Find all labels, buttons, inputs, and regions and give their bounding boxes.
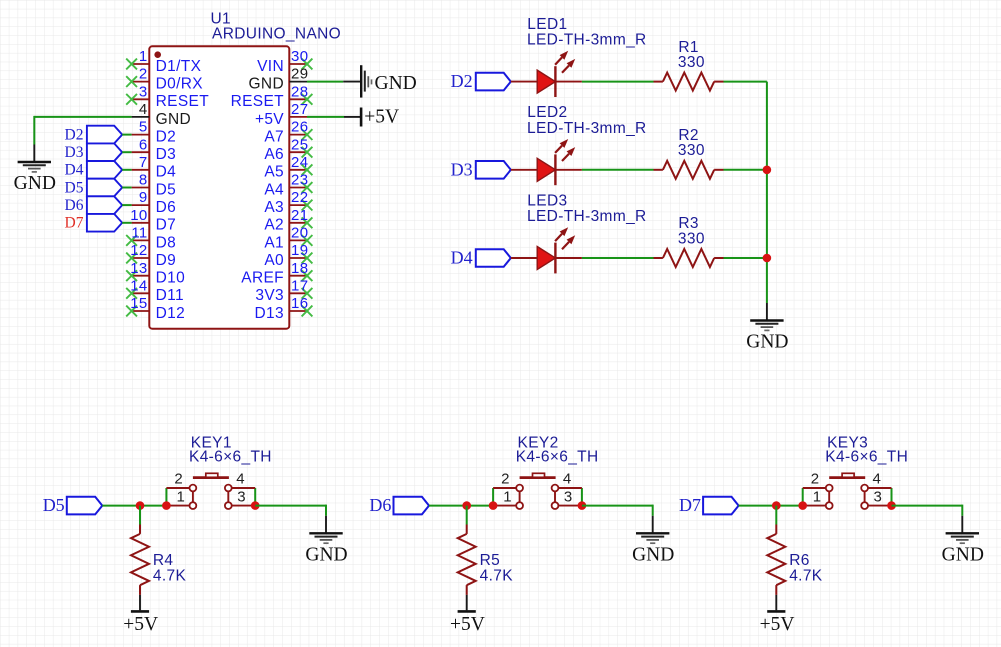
svg-text:6: 6 xyxy=(139,136,148,153)
power +5V (below R6) xyxy=(760,595,795,635)
node junction (flag/R) xyxy=(462,501,471,510)
svg-text:1: 1 xyxy=(503,489,512,506)
svg-text:11: 11 xyxy=(131,225,147,242)
svg-text:A3: A3 xyxy=(264,199,284,216)
U1 pin 13 (D10) xyxy=(126,260,185,287)
svg-text:D5: D5 xyxy=(65,179,84,196)
wire switch pin4 drop xyxy=(254,488,256,506)
svg-text:A6: A6 xyxy=(264,146,284,163)
ground (GND at KEY2) xyxy=(632,516,674,566)
svg-text:3: 3 xyxy=(874,489,883,506)
svg-text:+5V: +5V xyxy=(123,614,158,635)
svg-text:2: 2 xyxy=(811,470,820,487)
LED LED1 labels xyxy=(527,16,647,49)
net flag D2 (at U1) xyxy=(65,126,132,144)
wire D6 flag to switch xyxy=(429,505,493,507)
svg-text:D4: D4 xyxy=(451,248,473,268)
resistor R1 330 xyxy=(654,39,724,91)
resistor R3 330 xyxy=(654,215,724,267)
svg-text:4: 4 xyxy=(139,101,148,118)
svg-text:2: 2 xyxy=(174,470,183,487)
node junction (pin3) xyxy=(578,501,587,510)
node junction (pin1) xyxy=(162,501,171,510)
wire switch to GND corner xyxy=(892,505,963,516)
svg-text:30: 30 xyxy=(291,48,308,65)
svg-text:2: 2 xyxy=(139,66,148,83)
svg-text:GND: GND xyxy=(305,544,347,565)
svg-text:3: 3 xyxy=(564,489,573,506)
svg-text:23: 23 xyxy=(291,172,308,189)
svg-text:D7: D7 xyxy=(65,215,84,232)
svg-text:D6: D6 xyxy=(369,495,391,515)
U1 pin 10 (D7) xyxy=(130,207,176,234)
net flag D6 (key row) xyxy=(369,495,429,515)
svg-text:K4-6×6_TH: K4-6×6_TH xyxy=(189,449,272,466)
U1 pin 3 (RESET) xyxy=(126,83,209,110)
net flag D7 (at U1) xyxy=(65,214,132,232)
U1 pin 9 (D6) xyxy=(132,189,177,216)
svg-text:D7: D7 xyxy=(156,217,177,234)
net flag D5 (key row) xyxy=(43,495,103,515)
LED LED1 xyxy=(511,51,582,97)
U1 pin 16 (D13) xyxy=(255,295,313,322)
wire switch pin2 drop xyxy=(492,488,494,506)
svg-text:GND: GND xyxy=(746,332,788,353)
svg-text:1: 1 xyxy=(139,48,148,65)
svg-text:R5: R5 xyxy=(480,552,501,569)
resistor R2 330 xyxy=(654,127,724,179)
wire switch to GND corner xyxy=(255,505,326,516)
U1 pin 28 (RESET) xyxy=(231,83,313,110)
svg-text:AREF: AREF xyxy=(241,270,284,287)
svg-text:LED3: LED3 xyxy=(527,192,567,209)
svg-text:+5V: +5V xyxy=(364,107,399,128)
svg-text:4.7K: 4.7K xyxy=(789,568,823,585)
U1 pin 11 (D8) xyxy=(126,225,176,252)
svg-text:D1/TX: D1/TX xyxy=(156,58,202,75)
ground GND (right of pin29, sideways) xyxy=(343,65,417,97)
svg-text:+5V: +5V xyxy=(450,614,485,635)
svg-text:GND: GND xyxy=(942,544,984,565)
power +5V (below R4) xyxy=(123,595,158,635)
U1 pin 27 (+5V) xyxy=(255,101,308,128)
svg-text:1: 1 xyxy=(176,489,185,506)
svg-text:D4: D4 xyxy=(156,164,177,181)
U1 pin 25 (A6) xyxy=(264,136,312,163)
wire switch pin2 drop xyxy=(165,488,167,506)
wire resistor to bus xyxy=(724,169,767,171)
net flag D5 (at U1) xyxy=(65,179,132,197)
U1 pin 2 (D0/RX) xyxy=(126,66,203,93)
svg-text:RESET: RESET xyxy=(156,93,210,110)
svg-text:D4: D4 xyxy=(65,162,84,179)
svg-text:VIN: VIN xyxy=(257,58,284,75)
wire switch pin2 drop xyxy=(802,488,804,506)
svg-text:10: 10 xyxy=(130,207,147,224)
svg-text:A5: A5 xyxy=(264,164,284,181)
svg-text:GND: GND xyxy=(632,544,674,565)
U1 pin 1 (D1/TX) xyxy=(126,48,201,75)
svg-text:D2: D2 xyxy=(65,127,84,144)
svg-text:D2: D2 xyxy=(156,129,177,146)
svg-text:1: 1 xyxy=(813,489,822,506)
wire pin4 to ground xyxy=(34,116,131,145)
svg-text:D13: D13 xyxy=(255,305,284,322)
svg-text:D12: D12 xyxy=(156,305,185,322)
svg-text:GND: GND xyxy=(249,76,285,93)
svg-text:28: 28 xyxy=(291,83,308,100)
svg-text:7: 7 xyxy=(139,154,148,171)
svg-text:3: 3 xyxy=(237,489,246,506)
svg-text:ARDUINO_NANO: ARDUINO_NANO xyxy=(212,25,341,42)
node junction (pin3) xyxy=(251,501,260,510)
wire pin27 to +5V power port xyxy=(307,116,344,118)
resistor R5 4.7K xyxy=(458,525,513,595)
LED LED2 xyxy=(511,139,582,185)
svg-text:A4: A4 xyxy=(264,181,284,198)
U1 designator and part name labels xyxy=(211,11,342,43)
ground (top left GND) xyxy=(14,145,56,195)
svg-text:20: 20 xyxy=(291,225,308,242)
U1 pin 5 (D2) xyxy=(132,119,177,146)
svg-text:2: 2 xyxy=(501,470,510,487)
svg-text:D2: D2 xyxy=(451,71,473,91)
transistor-like switch KEY1 K4-6x6_TH xyxy=(166,434,271,509)
U1 pin 20 (A1) xyxy=(264,225,312,252)
svg-text:LED-TH-3mm_R: LED-TH-3mm_R xyxy=(527,120,647,137)
svg-text:+5V: +5V xyxy=(255,111,284,128)
U1 pin 22 (A3) xyxy=(264,189,312,216)
svg-text:18: 18 xyxy=(291,260,308,277)
svg-text:A7: A7 xyxy=(264,129,284,146)
LED LED3 labels xyxy=(527,192,647,225)
U1 pin 18 (AREF) xyxy=(241,260,312,287)
LED LED2 labels xyxy=(527,104,647,137)
svg-text:D6: D6 xyxy=(65,197,84,214)
svg-text:A0: A0 xyxy=(264,252,284,269)
svg-text:5: 5 xyxy=(139,119,148,136)
transistor-like switch KEY3 K4-6x6_TH xyxy=(803,434,908,509)
svg-text:D5: D5 xyxy=(156,181,177,198)
svg-text:LED-TH-3mm_R: LED-TH-3mm_R xyxy=(527,32,647,49)
node junction (bus/R3) xyxy=(763,254,772,263)
svg-text:R6: R6 xyxy=(789,552,810,569)
svg-text:4: 4 xyxy=(563,470,572,487)
wire D5 to resistor R4 xyxy=(139,506,141,525)
wire LED to resistor xyxy=(582,257,654,259)
svg-text:GND: GND xyxy=(14,173,56,194)
U1 pin 8 (D5) xyxy=(132,172,177,199)
U1 pin 24 (A5) xyxy=(264,154,312,181)
U1 pin 6 (D3) xyxy=(132,136,177,163)
svg-text:330: 330 xyxy=(678,230,705,247)
wire LED bus vertical xyxy=(766,82,768,303)
svg-text:+5V: +5V xyxy=(760,614,795,635)
power +5V (right of pin27) xyxy=(344,107,399,128)
svg-text:LED-TH-3mm_R: LED-TH-3mm_R xyxy=(527,208,647,225)
wire LED to resistor xyxy=(582,169,654,171)
wire LED to resistor xyxy=(582,81,654,83)
svg-text:15: 15 xyxy=(130,295,147,312)
net flag D3 (at U1) xyxy=(65,143,132,161)
svg-text:330: 330 xyxy=(678,54,705,71)
node junction (bus/R2) xyxy=(763,166,772,175)
wire switch to GND corner xyxy=(582,505,653,516)
node junction (pin1) xyxy=(489,501,498,510)
svg-text:4.7K: 4.7K xyxy=(480,568,514,585)
svg-text:22: 22 xyxy=(291,189,308,206)
svg-text:19: 19 xyxy=(291,242,308,259)
U1 ARDUINO_NANO body xyxy=(149,46,289,328)
svg-text:A1: A1 xyxy=(264,234,284,251)
U1 pin 19 (A0) xyxy=(264,242,312,269)
svg-text:K4-6×6_TH: K4-6×6_TH xyxy=(825,449,908,466)
U1 pin 21 (A2) xyxy=(264,207,312,234)
wire D7 to resistor R6 xyxy=(775,506,777,525)
U1 pin 23 (A4) xyxy=(264,172,312,199)
wire D6 to resistor R5 xyxy=(466,506,468,525)
U1 pin 30 (VIN) xyxy=(257,48,312,75)
net flag D7 (key row) xyxy=(679,495,739,515)
net flag D4 (at U1) xyxy=(65,161,132,179)
wire D7 flag to switch xyxy=(739,505,803,507)
svg-text:D7: D7 xyxy=(679,495,701,515)
U1 pin 12 (D9) xyxy=(126,242,176,269)
svg-text:K4-6×6_TH: K4-6×6_TH xyxy=(516,449,599,466)
svg-text:12: 12 xyxy=(130,242,147,259)
svg-text:A2: A2 xyxy=(264,217,284,234)
svg-text:27: 27 xyxy=(291,101,308,118)
svg-text:D11: D11 xyxy=(156,287,184,304)
transistor-like switch KEY2 K4-6x6_TH xyxy=(493,434,598,509)
svg-text:13: 13 xyxy=(130,260,147,277)
wire resistor to bus xyxy=(724,257,767,259)
svg-text:D3: D3 xyxy=(65,144,84,161)
svg-text:D3: D3 xyxy=(156,146,177,163)
svg-text:29: 29 xyxy=(291,66,308,83)
svg-text:LED1: LED1 xyxy=(527,16,567,33)
ground (LED bus GND) xyxy=(746,303,788,353)
node junction (pin3) xyxy=(887,501,896,510)
wire switch pin4 drop xyxy=(891,488,893,506)
svg-text:9: 9 xyxy=(139,189,148,206)
svg-text:D5: D5 xyxy=(43,495,65,515)
svg-text:4: 4 xyxy=(236,470,245,487)
svg-text:D10: D10 xyxy=(156,270,186,287)
svg-text:24: 24 xyxy=(291,154,308,171)
net flag D3 (LED row) xyxy=(451,159,511,179)
net flag D2 (LED row) xyxy=(451,71,511,91)
svg-text:3: 3 xyxy=(139,83,148,100)
LED LED3 xyxy=(511,227,582,273)
wire resistor to bus xyxy=(724,81,767,83)
U1 pin 14 (D11) xyxy=(126,277,184,304)
power +5V (below R5) xyxy=(450,595,485,635)
node junction (pin1) xyxy=(798,501,807,510)
svg-text:14: 14 xyxy=(130,277,147,294)
svg-text:GND: GND xyxy=(156,111,192,128)
net flag D6 (at U1) xyxy=(65,196,132,214)
net flag D4 (LED row) xyxy=(451,248,511,268)
resistor R6 4.7K xyxy=(767,525,822,595)
svg-text:LED2: LED2 xyxy=(527,104,567,121)
svg-text:21: 21 xyxy=(291,207,308,224)
svg-text:GND: GND xyxy=(375,73,417,94)
svg-text:R4: R4 xyxy=(153,552,174,569)
ground (GND at KEY3) xyxy=(942,516,984,566)
U1 pin 7 (D4) xyxy=(132,154,177,181)
svg-text:330: 330 xyxy=(678,142,705,159)
node junction (flag/R) xyxy=(136,501,145,510)
wire switch pin4 drop xyxy=(581,488,583,506)
U1 pin 29 (GND) xyxy=(249,66,309,93)
ground (GND at KEY1) xyxy=(305,516,347,566)
svg-text:D6: D6 xyxy=(156,199,177,216)
svg-text:D8: D8 xyxy=(156,234,177,251)
node junction (flag/R) xyxy=(772,501,781,510)
svg-text:D9: D9 xyxy=(156,252,177,269)
U1 pin 15 (D12) xyxy=(126,295,185,322)
svg-text:RESET: RESET xyxy=(231,93,285,110)
wire pin29 to GND power port xyxy=(307,81,343,83)
svg-text:26: 26 xyxy=(291,119,308,136)
svg-text:3V3: 3V3 xyxy=(255,287,284,304)
svg-text:16: 16 xyxy=(291,295,308,312)
svg-text:D3: D3 xyxy=(451,159,473,179)
wire D5 flag to switch xyxy=(102,505,166,507)
U1 pin 26 (A7) xyxy=(264,119,312,146)
U1 pin 4 (GND) xyxy=(132,101,192,128)
svg-text:D0/RX: D0/RX xyxy=(156,76,204,93)
svg-text:17: 17 xyxy=(291,277,308,294)
svg-text:8: 8 xyxy=(139,172,148,189)
U1 pin 17 (3V3) xyxy=(255,277,312,304)
resistor R4 4.7K xyxy=(131,525,186,595)
svg-text:25: 25 xyxy=(291,136,308,153)
svg-text:4.7K: 4.7K xyxy=(153,568,187,585)
svg-text:4: 4 xyxy=(873,470,882,487)
